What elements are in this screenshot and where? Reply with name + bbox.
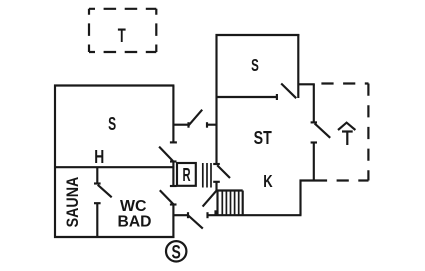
wall middle vertical lower stub	[215, 182, 217, 191]
wall top of bedroom S2	[216, 34, 300, 36]
terrace T2 dashed edge north	[317, 82, 369, 84]
wall terrace south solid part	[300, 179, 328, 181]
door jamb cap	[187, 122, 189, 128]
svg-text:ST: ST	[254, 127, 273, 148]
entrance T bar	[342, 130, 353, 132]
stairs left edge	[216, 191, 218, 216]
svg-text:S: S	[108, 114, 116, 134]
door leaf bedroom S1	[159, 147, 173, 161]
wall left exterior (west)	[54, 85, 56, 239]
wall bottom of bedroom S2	[216, 96, 277, 98]
door jamb cap	[206, 212, 208, 218]
door jamb cap	[94, 202, 101, 204]
svg-text:T: T	[118, 25, 126, 47]
svg-text:S: S	[251, 55, 259, 75]
wall bottom south (kitchen/stairs)	[208, 214, 302, 216]
stairs right edge	[242, 191, 244, 216]
door leaf terrace	[315, 123, 331, 137]
wall hall north segment east	[207, 124, 218, 126]
svg-text:BAD: BAD	[118, 214, 152, 231]
door leaf WC	[160, 190, 174, 204]
stairs top edge	[218, 189, 243, 191]
svg-text:K: K	[263, 171, 273, 191]
door jamb cap	[276, 94, 278, 100]
wall hall north segment west	[173, 124, 188, 126]
wall bottom exterior (south of sauna/bad)	[54, 236, 174, 238]
wall right of bedroom S2	[297, 34, 299, 98]
wall right of hall mid segment	[172, 162, 174, 187]
door jamb cap	[94, 182, 101, 184]
wall top of bedroom S1	[54, 84, 174, 86]
wall exit stub south	[173, 214, 188, 216]
svg-text:R: R	[183, 165, 191, 185]
door jamb cap	[311, 141, 317, 143]
door jamb cap	[187, 212, 189, 218]
wall middle vertical (west of stue)	[215, 34, 217, 164]
door jamb tick near stairs	[214, 210, 216, 215]
stairs risers	[222, 191, 238, 215]
wall right of WC lower	[172, 205, 174, 239]
terrace T2 dashed edge south	[327, 179, 369, 181]
circled S marker	[166, 241, 186, 261]
wall sauna divider upper	[96, 167, 98, 183]
door jamb cap	[170, 141, 177, 143]
wall kitchen east	[299, 180, 301, 216]
entrance arrow caret	[338, 123, 355, 130]
door jamb cap	[206, 122, 208, 128]
door jamb cap	[213, 181, 220, 183]
wall east of stue upper	[313, 84, 315, 122]
svg-text:H: H	[94, 147, 104, 167]
door leaf stue west	[217, 165, 230, 178]
door jamb cap	[311, 121, 317, 123]
door jamb cap	[170, 185, 177, 187]
door leaf hall north	[189, 110, 202, 126]
door leaf sauna	[98, 185, 112, 198]
door jamb cap	[170, 160, 177, 162]
door leaf bedroom S2	[281, 84, 296, 99]
wall right of bedroom S1 upper	[172, 86, 174, 143]
door leaf exit south	[188, 216, 203, 229]
door jamb cap	[170, 203, 177, 205]
door jamb cap	[213, 163, 220, 165]
svg-text:S: S	[172, 243, 181, 264]
terrace T1 dashed outline (top-left)	[89, 9, 156, 52]
wall sauna divider lower	[96, 203, 98, 238]
terrace T2 dashed edge east	[367, 84, 369, 181]
chimney hatch lines	[203, 163, 211, 188]
R box	[177, 163, 196, 186]
wall east of stue lower	[313, 143, 315, 182]
svg-text:WC: WC	[120, 198, 147, 215]
entrance T stem	[346, 132, 348, 146]
wall hall H (horizontal)	[55, 166, 174, 168]
wall stub to terrace (north-east)	[299, 83, 315, 85]
door leaf hall-stairs	[203, 191, 217, 207]
svg-text:SAUNA: SAUNA	[63, 177, 82, 228]
